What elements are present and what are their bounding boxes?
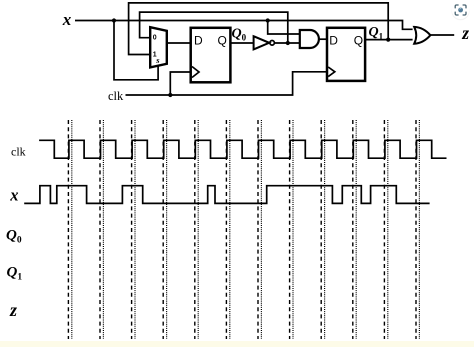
- wire x to mux select s: [114, 21, 158, 80]
- node junction NOT output feedback: [286, 41, 290, 45]
- node junction x to AND: [266, 18, 270, 22]
- svg-text:0: 0: [153, 35, 157, 42]
- wire NOT output to AND bottom input: [274, 42, 299, 44]
- grid marker pair t1: [67, 120, 69, 339]
- grid marker pair t10: [352, 120, 354, 339]
- node junction x to select: [112, 18, 116, 22]
- inverter NOT1: [254, 36, 275, 49]
- grid marker pair t2: [99, 120, 101, 339]
- flip-flop U2: [327, 28, 365, 81]
- svg-text:D: D: [329, 33, 338, 47]
- wire feedback Q1 to mux input 1: [129, 3, 389, 55]
- grid marker pair t11: [383, 120, 385, 339]
- grid marker pair t6: [225, 120, 227, 339]
- wire x line to AND top input: [268, 21, 300, 35]
- wire clk main to U2 clock: [126, 72, 328, 95]
- svg-text:Q: Q: [218, 33, 227, 47]
- wire AND output to D of U2: [319, 38, 327, 40]
- OR gate O1: [414, 27, 430, 44]
- svg-text:clk: clk: [11, 144, 26, 158]
- svg-text:D: D: [194, 33, 203, 47]
- grid marker pair t4: [162, 120, 164, 339]
- grid marker pair t12: [415, 120, 417, 339]
- flip-flop U1: [191, 28, 231, 83]
- node junction clk to U1: [168, 93, 172, 97]
- wire mux output to D of U1: [167, 42, 191, 44]
- svg-text:z: z: [9, 300, 17, 320]
- svg-text:x: x: [62, 10, 72, 29]
- wire Q0 output to NOT input: [230, 42, 253, 44]
- grid marker pair t7: [257, 120, 259, 339]
- svg-text:s: s: [155, 55, 160, 65]
- svg-text:clk: clk: [108, 89, 124, 103]
- wire Q1 output to OR bottom input: [365, 39, 413, 41]
- grid marker pair t5: [194, 120, 196, 339]
- multiplexer MUX1: [150, 27, 167, 67]
- waveform clk: [39, 140, 446, 158]
- snip icon: [452, 2, 470, 21]
- svg-text:x: x: [9, 185, 18, 204]
- bottom pale band: [0, 341, 474, 347]
- waveform x: [24, 186, 429, 204]
- wire feedback NOT output to mux input 0: [140, 12, 288, 43]
- wire clk branch to U1 clock: [170, 72, 190, 95]
- grid marker pair t3: [131, 120, 133, 339]
- AND gate A1: [300, 30, 319, 48]
- wire OR output to z: [430, 34, 454, 36]
- wire x input main: [75, 21, 413, 30]
- grid marker pair t8: [289, 120, 291, 339]
- node junction Q1 feedback: [386, 38, 390, 42]
- grid marker pair t9: [320, 120, 322, 339]
- svg-text:Q: Q: [354, 33, 363, 47]
- svg-text:z: z: [461, 23, 469, 43]
